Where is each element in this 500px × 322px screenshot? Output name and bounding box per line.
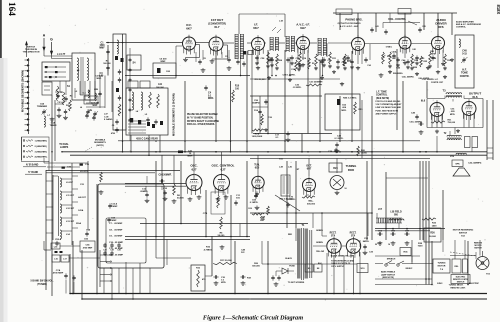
- wire rf input: [106, 42, 183, 44]
- svg-text:3 (HEATER): 3 (HEATER): [35, 150, 47, 153]
- transformer lead labels: [285, 230, 324, 260]
- tube V4 A.V.C.-I.F. 6H7: [296, 23, 310, 55]
- grounds under osc tubes: [188, 195, 229, 201]
- wire: [385, 172, 387, 240]
- grounds under rf row: [201, 61, 441, 86]
- grounds extra row: [267, 70, 336, 82]
- wire antenna to coil: [43, 51, 45, 57]
- svg-text:CONTR.: CONTR.: [460, 75, 470, 78]
- svg-text:L58 FIELD: L58 FIELD: [390, 212, 402, 214]
- wire: [423, 13, 425, 30]
- svg-text:JUNC.: JUNC.: [437, 283, 443, 285]
- capacitor grid C37-C40: [103, 243, 120, 256]
- left trimmer pair: [86, 109, 98, 117]
- wire: [301, 134, 303, 152]
- label movable segments rotated: [21, 70, 25, 112]
- svg-text:L11 28T: L11 28T: [66, 195, 75, 197]
- tube V10 OSC 6J7: [186, 164, 202, 196]
- wire: [122, 34, 124, 152]
- svg-text:FUSE. SEE PAGE NOTE: FUSE. SEE PAGE NOTE: [376, 109, 399, 112]
- svg-text:500,000: 500,000: [252, 266, 260, 268]
- labels vol area: [386, 47, 435, 81]
- resistor R17: [213, 260, 237, 265]
- svg-text:4700 MMF: 4700 MMF: [53, 272, 64, 275]
- wire bus y223: [140, 223, 308, 225]
- switch segment column: [25, 58, 30, 134]
- svg-text:50,000: 50,000: [429, 236, 436, 238]
- wire: [437, 13, 439, 36]
- tube V6 1ST AUDIO: [399, 35, 411, 54]
- dial lamp note: [59, 143, 69, 149]
- wire: [230, 195, 232, 237]
- IF transformer T-D: [318, 38, 327, 56]
- svg-text:R24: R24: [333, 167, 338, 170]
- wire: [396, 49, 398, 130]
- stock number 818X: [496, 5, 500, 15]
- gang area extras: [84, 76, 102, 121]
- terminal box C22: [243, 51, 254, 55]
- svg-text:6K7: 6K7: [253, 26, 259, 30]
- svg-text:C45: C45: [422, 25, 425, 28]
- capacitor C3 label: [99, 65, 110, 77]
- capacitor blobs C36A: [55, 251, 63, 253]
- wire: [267, 50, 269, 134]
- coil L14: [60, 230, 71, 239]
- wire: [96, 184, 98, 294]
- coil box L15: [51, 243, 60, 249]
- label C48 trimmer box H.F. tone: [455, 35, 474, 88]
- wire y246 links: [313, 245, 326, 247]
- resistor R28: [410, 54, 419, 70]
- bottom-left caps pair: [64, 273, 75, 293]
- label C30 mid: [293, 85, 302, 90]
- capacitor C17: [275, 131, 290, 141]
- svg-text:4 (HEATER): 4 (HEATER): [35, 156, 47, 159]
- S1 contact blobs: [45, 66, 58, 78]
- vol area extras: [392, 50, 445, 65]
- antenna coil labels: [77, 69, 104, 95]
- svg-text:C41A: C41A: [78, 209, 84, 212]
- svg-text:C5 5-20: C5 5-20: [57, 102, 65, 104]
- capacitor C55A: [55, 238, 62, 246]
- svg-text:MMF.: MMF.: [187, 156, 193, 158]
- capacitor C6 pair: [111, 119, 119, 135]
- svg-text:R17-20,000: R17-20,000: [220, 260, 232, 262]
- speaker circuit wires: [385, 218, 387, 229]
- wire if-avc: [265, 42, 267, 44]
- resistor R31: [431, 120, 456, 125]
- svg-text:.05MFD.: .05MFD.: [252, 103, 261, 105]
- resistor R25: [420, 56, 428, 67]
- note L.F. tone control: [376, 92, 389, 100]
- mid band clutter: [252, 96, 362, 158]
- svg-text:R40 3.3 MEG.: R40 3.3 MEG.: [343, 97, 357, 100]
- svg-text:C58 1.0MFD.: C58 1.0MFD.: [282, 75, 295, 77]
- tube V3 I.F. 6K7: [252, 23, 265, 56]
- note to remote: [331, 260, 355, 268]
- resistor R30: [443, 54, 452, 70]
- switch music: [397, 261, 413, 270]
- svg-text:C55 A: C55 A: [55, 238, 62, 241]
- svg-text:4.7MEG.: 4.7MEG.: [204, 248, 213, 251]
- capacitor C29: [335, 136, 344, 153]
- svg-text:IN "A" BAND POSITION.: IN "A" BAND POSITION.: [187, 116, 214, 119]
- svg-text:(SEE NOTE): (SEE NOTE): [382, 277, 394, 279]
- wire: [422, 161, 424, 240]
- label tuning rod: [346, 164, 357, 172]
- svg-text:5 MEG.: 5 MEG.: [386, 47, 393, 49]
- svg-text:6L7: 6L7: [214, 25, 220, 29]
- svg-text:8MFD.: 8MFD.: [363, 241, 370, 243]
- wire cluster links: [43, 241, 45, 250]
- svg-text:G: G: [50, 38, 53, 42]
- choke L56: [450, 153, 466, 158]
- wire rf-det: [196, 42, 210, 44]
- wire: [51, 170, 53, 296]
- svg-text:TRIMR: TRIMR: [50, 125, 57, 127]
- wire bus y213: [250, 212, 372, 214]
- svg-text:LAMPS: LAMPS: [60, 146, 69, 149]
- switch speech: [385, 259, 396, 267]
- svg-text:CABLE SOCKETS OF: CABLE SOCKETS OF: [331, 262, 351, 265]
- detector diode caps: [343, 55, 371, 67]
- capacitor C36 blob: [80, 164, 90, 167]
- coil L7: [44, 115, 51, 127]
- svg-text:BAL.: BAL.: [308, 200, 313, 203]
- svg-text:MOTOR REVERSING: MOTOR REVERSING: [453, 230, 474, 232]
- svg-text:750,000: 750,000: [448, 122, 456, 124]
- svg-text:6 GANG: 6 GANG: [104, 118, 113, 121]
- resistor R18: [306, 82, 323, 87]
- svg-text:VOLT OPERATION ADJUST: VOLT OPERATION ADJUST: [376, 103, 403, 106]
- tube V2 1ST DET 6L7: [208, 18, 228, 63]
- band coil box S4: [127, 55, 141, 70]
- page number 164: [7, 2, 17, 16]
- capacitor C53: [363, 238, 370, 255]
- wire top tube pins down: [188, 50, 190, 52]
- svg-text:C50-.05MFD.: C50-.05MFD.: [409, 122, 423, 124]
- bottom remote labels: [437, 283, 480, 290]
- svg-text:ELECTRIC: ELECTRIC: [469, 283, 480, 285]
- output tube pin drops: [436, 117, 438, 128]
- resistor R11: [328, 52, 337, 68]
- wire: [442, 190, 444, 240]
- gang box inner hatch: [128, 121, 163, 133]
- svg-text:GREEN: GREEN: [316, 242, 323, 244]
- wire det-ifcan: [223, 42, 234, 44]
- svg-text:C42-12MMFD.: C42-12MMFD.: [468, 162, 482, 165]
- label phono bridge: [345, 18, 363, 22]
- svg-text:C7A: C7A: [56, 269, 61, 272]
- wire: [375, 13, 377, 32]
- svg-text:6H7: 6H7: [300, 26, 306, 30]
- antenna terminal A: [43, 34, 46, 51]
- svg-text:THIS DIRECTION: THIS DIRECTION: [23, 52, 40, 54]
- svg-text:6U7: 6U7: [307, 167, 312, 170]
- svg-text:R26-2MEG.: R26-2MEG.: [393, 73, 403, 75]
- label volume control: [388, 17, 417, 25]
- resistor R34A: [261, 216, 266, 222]
- svg-text:C.W.: C.W.: [104, 116, 109, 118]
- wire t1 extra winding: [309, 230, 311, 278]
- wire bus y141: [118, 140, 420, 142]
- svg-text:16: 16: [388, 244, 390, 246]
- svg-text:RECT.: RECT.: [350, 233, 357, 235]
- wire speaker top: [386, 177, 428, 179]
- coil L13: [60, 217, 75, 226]
- note motor reversing: [453, 230, 474, 238]
- svg-text:MOVABLE SEGMENTS (SHOWN): MOVABLE SEGMENTS (SHOWN): [21, 70, 25, 112]
- svg-text:C42: C42: [412, 48, 415, 51]
- wire: [246, 161, 248, 237]
- svg-text:ROD: ROD: [348, 168, 354, 172]
- wire bus y299: [82, 298, 487, 300]
- wire: [72, 241, 74, 294]
- svg-text:BLACK: BLACK: [285, 257, 292, 260]
- wire: [155, 161, 157, 237]
- resistor R6 osc: [172, 184, 185, 203]
- wire: [205, 190, 207, 237]
- potentiometer BAL: [302, 194, 316, 205]
- field coil winding dense: [376, 218, 402, 223]
- wire bus y152: [62, 151, 487, 153]
- avc resistor chain: [295, 58, 315, 71]
- trimmer C54: [37, 103, 48, 115]
- resistor R33 left: [99, 172, 104, 194]
- svg-text:REMOTE CONT.: REMOTE CONT.: [450, 288, 466, 290]
- tube V13 beat osc: [303, 165, 316, 197]
- svg-text:A.V.C.-H.F.C.- 6H5: A.V.C.-H.F.C.- 6H5: [340, 25, 359, 28]
- label 115V: [288, 282, 305, 284]
- wire mid risers to osc: [161, 155, 163, 183]
- left coil cluster labels: [76, 171, 88, 225]
- svg-text:(TUNER): (TUNER): [37, 284, 47, 286]
- wire bottom tube links: [326, 253, 328, 294]
- junction dots network: [51, 42, 469, 300]
- svg-text:CONTROL: CONTROL: [456, 26, 467, 28]
- resistor R26: [357, 146, 368, 156]
- svg-text:L40 30T: L40 30T: [78, 196, 86, 199]
- wire y236 double: [125, 236, 250, 238]
- label output 6L6: [469, 92, 482, 100]
- output frame connectors: [454, 128, 456, 135]
- resistor R19: [314, 54, 323, 70]
- svg-text:BLK.: BLK.: [318, 263, 323, 265]
- wire gang box risers: [130, 135, 132, 152]
- wire y75 left: [125, 75, 250, 77]
- label C48b: [241, 249, 246, 255]
- capacitor row top right: [370, 25, 425, 35]
- svg-text:500,000: 500,000: [307, 203, 316, 205]
- switch box S10: [357, 264, 368, 273]
- svg-text:4S/5 C GANG REAR: 4S/5 C GANG REAR: [136, 138, 158, 141]
- svg-text:500,000: 500,000: [156, 87, 164, 89]
- avc box R40: [325, 94, 363, 130]
- wire field feeds: [376, 213, 378, 218]
- svg-text:TUNING MECH.: TUNING MECH.: [449, 285, 464, 287]
- capacitor C54 psu: [375, 230, 383, 247]
- capacitor box C66: [80, 241, 95, 252]
- resistor R16: [298, 52, 307, 68]
- resistor R1: [56, 86, 64, 101]
- note movable segments right: [84, 139, 106, 153]
- svg-text:MMF.: MMF.: [93, 105, 98, 107]
- wire: [492, 100, 494, 160]
- resistor R4: [275, 54, 283, 70]
- capacitor C13A: [108, 203, 118, 209]
- resistor box R35: [400, 248, 411, 256]
- switch box on-off: [314, 264, 322, 272]
- svg-text:R10: R10: [235, 86, 240, 88]
- svg-text:6K7: 6K7: [186, 27, 192, 31]
- label C51: [450, 109, 456, 116]
- wire bus y158: [250, 157, 430, 159]
- capacitor C11: [234, 195, 240, 206]
- svg-text:A11: A11: [158, 83, 163, 86]
- label movable segments 2 rotated: [172, 93, 176, 136]
- wire: [467, 241, 469, 285]
- svg-text:(NOTE): (NOTE): [96, 145, 103, 147]
- label R26A: [252, 263, 260, 268]
- trimmer C3A: [50, 122, 57, 128]
- switch box phono: [336, 9, 411, 15]
- svg-text:1000,500K: 1000,500K: [252, 136, 263, 138]
- resistor box R36: [424, 228, 441, 242]
- capacitor C47 psu: [404, 230, 409, 246]
- svg-text:C7 - .05 MMF: C7 - .05 MMF: [109, 223, 123, 225]
- svg-text:C40-.05MFD.: C40-.05MFD.: [402, 76, 415, 79]
- det shield cap stack: [129, 48, 132, 141]
- tone row wires: [375, 263, 383, 265]
- label C2: [225, 56, 231, 63]
- grounds vol area: [388, 58, 454, 79]
- svg-text:SWITCH: SWITCH: [474, 248, 482, 250]
- capacitor C58: [255, 55, 265, 64]
- svg-text:TRIMMER: TRIMMER: [37, 106, 48, 108]
- wire vol area stubs: [382, 23, 384, 29]
- svg-text:LINE VOLTAGE PLUG AND: LINE VOLTAGE PLUG AND: [376, 106, 402, 109]
- capacitor C46: [418, 122, 423, 134]
- transformer T3: [442, 89, 462, 98]
- svg-text:BASS TREBLE: BASS TREBLE: [381, 271, 396, 274]
- svg-text:CONTROL: CONTROL: [376, 95, 388, 97]
- svg-text:C10- .05 MMF: C10- .05 MMF: [109, 242, 124, 244]
- svg-text:N 'B' BAND: N 'B' BAND: [26, 163, 39, 166]
- svg-text:50,000: 50,000: [177, 198, 184, 200]
- capacitor C27: [336, 59, 346, 68]
- power transformer T1: [297, 224, 308, 280]
- svg-text:SWITCH: SWITCH: [459, 232, 468, 234]
- capacitor C31: [322, 57, 332, 66]
- label C8: [198, 58, 206, 65]
- label R38: [418, 243, 424, 248]
- terminal boxes A11: [128, 81, 165, 89]
- resistor R27: [388, 52, 397, 68]
- wire: [339, 13, 341, 30]
- coil L11: [60, 191, 75, 200]
- svg-text:Figure 1—Schematic Circuit Dia: Figure 1—Schematic Circuit Diagram: [203, 315, 303, 322]
- wire: [284, 50, 286, 152]
- capacitor C28: [328, 148, 338, 153]
- resistor R34 tun: [252, 213, 265, 222]
- note adjust block: [376, 100, 403, 115]
- svg-text:R8: R8: [299, 65, 301, 67]
- svg-text:R.F.: R.F.: [241, 252, 245, 254]
- svg-text:C41: C41: [375, 25, 378, 28]
- wire box bottom drops: [118, 268, 120, 294]
- label yellow tap: [318, 263, 323, 265]
- psu extra wires: [261, 241, 263, 264]
- capacitor C69: [250, 191, 260, 209]
- wire: [402, 81, 404, 152]
- svg-text:PHASE SELECTOR SHOWN: PHASE SELECTOR SHOWN: [187, 113, 218, 116]
- switch direction note: [23, 47, 40, 54]
- resistor box R15: [191, 265, 206, 291]
- capacitor C5: [57, 107, 62, 117]
- capacitor C56 mid: [252, 99, 268, 104]
- wire: [45, 170, 47, 290]
- svg-text:TO MOUNTED PLUG AND: TO MOUNTED PLUG AND: [331, 260, 355, 263]
- capacitor list box: [106, 218, 146, 263]
- wire: [307, 50, 309, 134]
- padder dashed box: [203, 192, 225, 215]
- capacitor C19: [240, 275, 251, 285]
- svg-text:R36: R36: [430, 233, 435, 235]
- svg-text:MFD.: MFD.: [450, 114, 456, 116]
- svg-text:4700 MMF: 4700 MMF: [83, 247, 93, 250]
- capacitor C69A: [248, 193, 258, 210]
- svg-text:C9 - .05 MMF: C9 - .05 MMF: [109, 236, 123, 238]
- svg-text:FOR 116-130 AND 220-260: FOR 116-130 AND 220-260: [376, 100, 402, 103]
- wire y279: [375, 278, 432, 280]
- switch wafer box: [42, 82, 52, 95]
- if trimmers: [236, 57, 323, 66]
- svg-text:SWITCH: SWITCH: [457, 282, 465, 284]
- coil box L17: [61, 255, 69, 262]
- label C2 trimmer: [91, 103, 100, 108]
- page edge line: [0, 0, 2, 112]
- wire: [251, 96, 253, 134]
- tube V7 AUDIO DRIVER 6F6: [432, 18, 448, 54]
- svg-text:L13 35T: L13 35T: [66, 221, 75, 223]
- tube V11 OSC CONTROL 6J7: [212, 164, 235, 196]
- tuning motor box: [433, 259, 450, 273]
- capacitor C45: [415, 55, 425, 64]
- svg-text:818X: 818X: [496, 5, 500, 15]
- label black green: [331, 255, 354, 258]
- svg-text:C43: C43: [411, 61, 414, 64]
- speaker cone: [453, 168, 470, 176]
- switch box mute: [305, 264, 313, 272]
- antenna coil box L2 L3: [72, 53, 95, 100]
- ground terminal G: [50, 38, 53, 55]
- resistor R33 psu: [422, 218, 437, 227]
- det gang shield box: [113, 34, 126, 130]
- wire rect to bus: [333, 255, 335, 294]
- label L38 L36: [279, 167, 300, 172]
- svg-text:1400: 1400: [432, 224, 438, 227]
- left risers under band rows: [48, 161, 50, 171]
- svg-text:LAMP SWITCH: LAMP SWITCH: [381, 273, 396, 276]
- svg-text:TO SET SCREWS: TO SET SCREWS: [288, 282, 305, 284]
- wire coil cluster frame: [52, 175, 54, 240]
- wire y96: [250, 95, 322, 97]
- svg-text:C46-.01MFD.: C46-.01MFD.: [418, 77, 430, 80]
- svg-text:MFD.: MFD.: [208, 97, 214, 100]
- svg-text:FUSE: FUSE: [289, 266, 295, 268]
- svg-text:L10 25T: L10 25T: [80, 171, 88, 173]
- svg-text:YELLOW: YELLOW: [316, 251, 324, 253]
